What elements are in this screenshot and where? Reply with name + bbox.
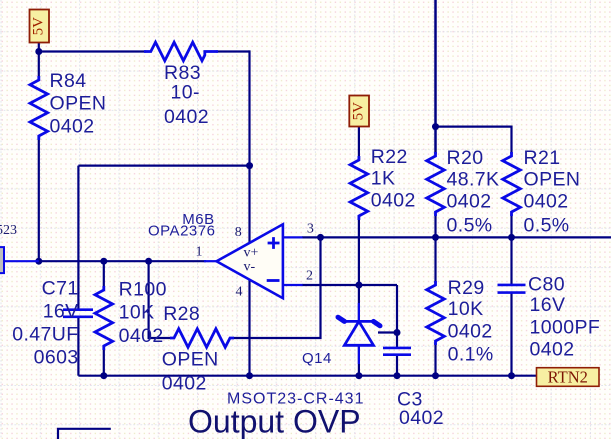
wire bottom rail RTN2 net [78,375,536,377]
svg-text:0402: 0402 [371,190,416,212]
op-amp + marker [268,237,280,249]
svg-text:10K: 10K [448,298,484,320]
capacitor C71 plates [63,310,93,317]
junction output/R100 [100,258,107,265]
junction rail/R29 [432,372,439,379]
svg-text:R28: R28 [163,303,200,325]
svg-text:0402: 0402 [447,191,492,213]
junction pin3/R21/C80 [508,234,515,241]
wire pin2 corner down x=397 to ref junction [396,285,398,333]
svg-text:0402: 0402 [119,325,164,347]
wire top feed vertical x=435.5 [434,0,437,154]
svg-text:3: 3 [307,222,314,237]
svg-text:0402: 0402 [524,191,569,213]
junction R20/R21 branch [432,123,439,130]
svg-text:C80: C80 [528,273,565,295]
svg-text:0402: 0402 [448,321,493,343]
wire Q14 ref horizontal [378,331,397,333]
wire C80 bottom lead to rail [510,293,512,376]
svg-text:1000PF: 1000PF [530,316,601,338]
wire vertical x=249.5 op-amp pin4 down to rail [248,280,250,376]
svg-text:16V: 16V [530,294,566,316]
svg-text:OPEN: OPEN [524,169,581,191]
junction feedback/pin8 [246,162,253,169]
wire Q14 anode to rail [358,345,360,375]
resistor R21 zigzag x=511.5 y 156-212 [503,152,521,216]
junction rail/R100 [100,372,107,379]
resistor R100 zigzag x=103.8 y 290-346 [95,286,113,350]
svg-text:0.47UF: 0.47UF [12,324,78,346]
junction rail/Q14 [355,372,362,379]
svg-text:OPA2376: OPA2376 [148,223,215,240]
junction pin3/R28 [317,234,324,241]
wire R100 top lead [103,261,105,287]
resistor R22 zigzag x=358.9 y 160-216 [350,156,368,220]
svg-text:523: 523 [0,223,17,238]
op-amp OPA2376 triangle body [217,224,283,298]
Q14 anode pin [358,345,360,364]
svg-text:R21: R21 [524,147,561,169]
svg-text:0402: 0402 [530,339,575,361]
op-amp U? triangle [204,224,303,298]
wire R22 bottom lead down through pin3 to Q14 cathode [358,218,360,322]
svg-text:0.1%: 0.1% [448,343,494,365]
svg-text:Q14: Q14 [302,350,332,367]
Q14 bar left curl [338,317,344,321]
wire R20 bottom lead [434,214,436,237]
Q14 cathode pin [358,303,360,321]
svg-text:v-: v- [244,260,256,275]
junction pin3/R20/R29 [432,234,439,241]
Q14 bar right curl [374,321,381,325]
svg-text:5V: 5V [31,17,47,36]
wire pin2 net horizontal [302,284,397,286]
wire R21 bottom lead [510,214,512,237]
svg-text:0402: 0402 [162,373,207,395]
junction rail/C3 [394,372,401,379]
svg-text:OPEN: OPEN [162,349,219,371]
svg-text:10-: 10- [171,82,200,104]
power port 5V (top-left) [30,10,50,43]
svg-text:C71: C71 [42,277,79,299]
svg-text:R100: R100 [119,278,167,300]
svg-text:R29: R29 [448,277,485,299]
Q14 cathode bar [344,320,373,323]
svg-text:R84: R84 [50,70,87,92]
resistor R84 zigzag vertical x=38.8 y 80-136 [30,76,48,140]
wire 5V box to R84 top [38,42,40,77]
Q14 anode triangle [344,321,373,345]
junction rail/C80 [508,372,515,379]
svg-text:1K: 1K [371,168,396,190]
junction ref/C3 [394,329,401,336]
svg-text:R22: R22 [371,146,408,168]
resistor R20 zigzag x=435.5 y 156-212 [427,152,445,216]
resistor R29 zigzag x=435.5 y 285-341 [427,281,445,345]
svg-text:0402: 0402 [399,407,444,429]
pin from connector to junction [4,260,39,262]
svg-text:R20: R20 [447,147,484,169]
wire R28 right lead to corner up to pin3 net [233,237,321,338]
svg-text:RTN2: RTN2 [548,367,588,386]
wire R100 bottom lead to rail [103,349,105,376]
svg-text:0402: 0402 [50,115,95,137]
wire R28 left vertical from output net [149,261,171,338]
svg-text:2: 2 [306,269,313,284]
svg-text:1: 1 [196,245,203,260]
svg-text:0.5%: 0.5% [524,214,570,236]
svg-text:0.5%: 0.5% [447,214,493,236]
wire C3 bottom to rail [396,356,398,376]
svg-text:8: 8 [235,225,242,240]
wire R84 bottom lead down to output net [38,139,40,261]
capacitor C3 plates [383,348,411,355]
wire C71 bottom plate to rail corner [77,318,79,376]
op-amp pin1 stub [204,260,217,262]
transistor Q14 TL431 symbol [338,303,380,364]
wire vertical x=249.5 from R83 corner down to op-amp pin8 [248,50,250,244]
connector 523 (left edge, grey) [0,247,39,273]
wire R29 top lead [434,237,436,283]
svg-text:v+: v+ [244,246,259,261]
wire R29 bottom lead to rail [434,343,436,376]
junction rail/pin4 [246,372,253,379]
wire R83 right lead to corner [216,50,250,52]
wire R22 5V box down to zigzag [358,126,360,158]
wire C80 top lead [510,237,512,284]
svg-text:OPEN: OPEN [50,93,107,115]
svg-text:0402: 0402 [164,106,209,128]
junction output/R28 [145,258,152,265]
wire 5V rail top: junction to R83 left lead [39,50,146,52]
junction pin2/R22/Q14 [355,282,362,289]
svg-text:4: 4 [236,284,243,299]
wire feedback top horizontal y=165.6 [78,165,249,167]
wire vertical x=78.4 down to C71 top plate [77,166,79,309]
svg-text:5V: 5V [351,102,367,121]
svg-text:0603: 0603 [34,346,79,368]
box corner (bottom-left, partial) [58,429,111,439]
svg-text:Output OVP: Output OVP [188,404,361,439]
svg-text:10K: 10K [119,302,155,324]
resistor R28 zigzag horizontal y=338 x 174-230 [170,329,234,348]
op-amp pin2 stub [283,284,303,286]
junction 5V/R84/R83 [35,48,42,55]
resistor R83 zigzag horizontal y=51.5 x 150.8-204.8 [144,42,218,61]
power port 5V (R22) [349,96,369,127]
capacitor C80 plates [498,285,526,293]
op-amp - marker [267,279,280,282]
wire output net y=261.2 [39,260,206,262]
svg-text:48.7K: 48.7K [447,169,500,191]
junction output/R84 [35,258,42,265]
wire pin3 net horizontal to right edge [302,236,611,238]
wire R20-R21 branch y=126.6 [436,127,512,154]
net label RTN2 (yellow box) [537,367,600,386]
op-amp pin3 stub [283,236,303,238]
svg-text:16V: 16V [43,301,79,323]
wire ref junction down to C3 top plate [396,333,398,348]
